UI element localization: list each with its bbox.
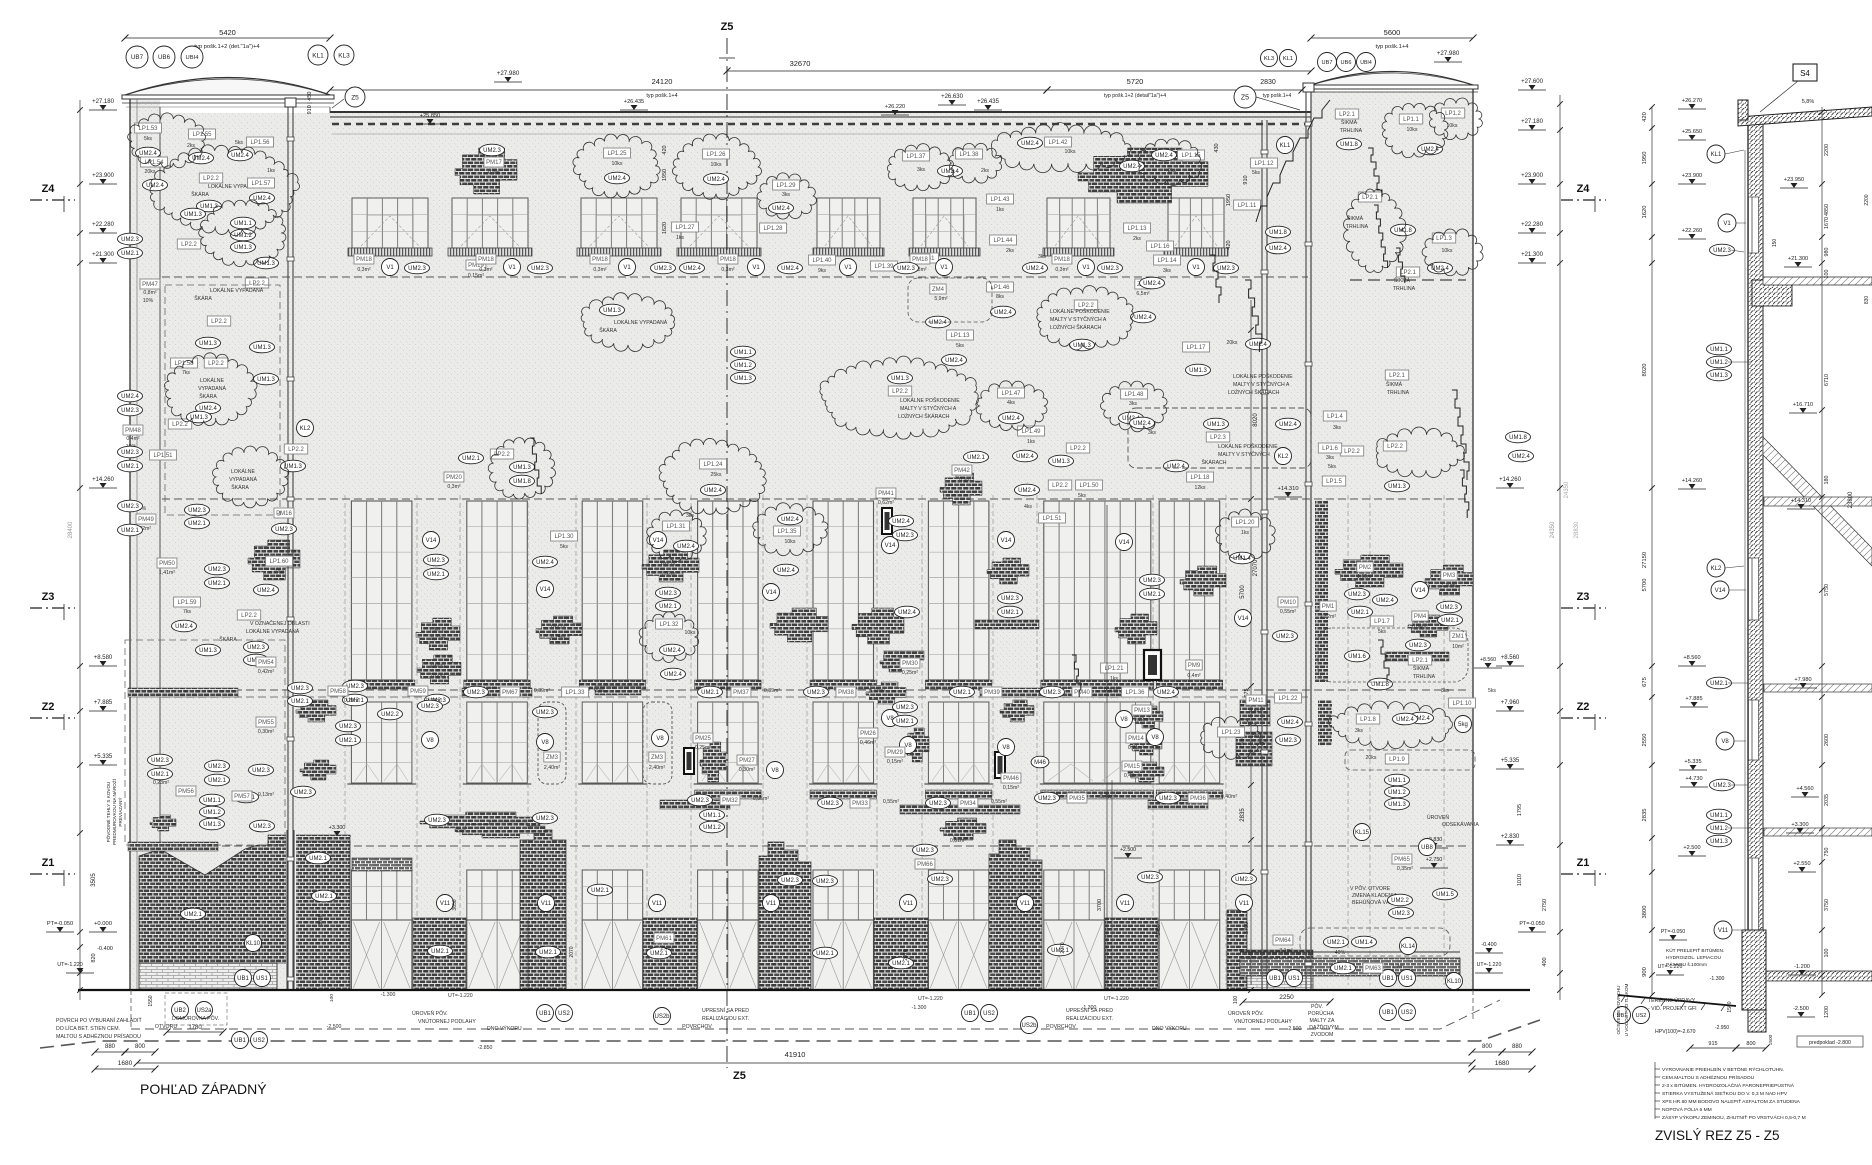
- grid line Z3 left: [30, 607, 75, 609]
- svg-text:POVRCHOV: POVRCHOV: [1046, 1024, 1076, 1030]
- window row4 #2: [467, 870, 528, 990]
- svg-text:US1: US1: [1288, 976, 1300, 982]
- level UT=-1.220: [57, 962, 94, 973]
- label LP1.47: [998, 388, 1025, 398]
- label 5kg: [1455, 716, 1472, 733]
- dim 2250: [1240, 994, 1334, 1006]
- svg-text:PM3: PM3: [1443, 573, 1456, 579]
- label UM2.4: [1130, 417, 1155, 429]
- brick chain sill-0: [462, 688, 532, 697]
- svg-text:UM2.3: UM2.3: [252, 768, 270, 774]
- svg-text:V1: V1: [386, 265, 394, 271]
- svg-text:24120: 24120: [652, 77, 673, 86]
- svg-text:23800: 23800: [1848, 491, 1854, 508]
- brick chain under window: [1240, 700, 1270, 726]
- label LP2.2: [1340, 446, 1363, 456]
- label UM2.4: [704, 173, 729, 185]
- label LP2.2: [1048, 480, 1071, 490]
- label UM2.3: [1040, 686, 1065, 698]
- predpoklad box: [1797, 1036, 1863, 1047]
- label LP1.31: [663, 521, 690, 531]
- label PM58: [328, 686, 348, 696]
- label LP2.2: [1074, 300, 1097, 310]
- svg-text:LP1.18: LP1.18: [1190, 475, 1210, 481]
- svg-text:-0.400: -0.400: [97, 946, 113, 952]
- svg-text:UB1: UB1: [1382, 976, 1394, 982]
- svg-text:0,15m²: 0,15m²: [468, 273, 484, 279]
- label UM1.2: [1707, 822, 1732, 834]
- svg-text:KL1: KL1: [312, 52, 324, 59]
- label UM2.3: [533, 706, 558, 718]
- label UM2.1: [964, 451, 989, 463]
- svg-text:-2.950: -2.950: [1715, 1025, 1729, 1031]
- label UM1.3: [1204, 418, 1229, 430]
- brick chain sill-1: [595, 686, 641, 695]
- label KL1: [1280, 50, 1297, 67]
- svg-text:LP1.47: LP1.47: [1001, 391, 1021, 397]
- svg-text:UM2.4: UM2.4: [1167, 464, 1185, 470]
- svg-text:US1: US1: [1401, 976, 1413, 982]
- label UM1.3: [510, 461, 535, 473]
- svg-text:UM2.3: UM2.3: [536, 816, 554, 822]
- label UM1.1: [200, 794, 225, 806]
- label LP1.24: [700, 459, 727, 469]
- svg-text:5720: 5720: [1127, 77, 1144, 86]
- label LP2.1: [1385, 370, 1408, 380]
- svg-text:UM2.3: UM2.3: [1235, 877, 1253, 883]
- svg-text:100: 100: [1824, 270, 1830, 279]
- svg-text:LP2.3: LP2.3: [1210, 435, 1226, 441]
- svg-text:25ks: 25ks: [711, 472, 722, 478]
- label UM2.4: [1140, 277, 1165, 289]
- label UM2.4: [1018, 137, 1043, 149]
- svg-text:Z5: Z5: [733, 1070, 746, 1082]
- svg-text:UM2.3: UM2.3: [428, 818, 446, 824]
- label LP1.59: [174, 597, 201, 607]
- label V11: [1714, 921, 1732, 939]
- svg-text:3ks: 3ks: [1441, 688, 1449, 694]
- svg-text:ZVISLÝ REZ Z5 - Z5: ZVISLÝ REZ Z5 - Z5: [1655, 1128, 1780, 1143]
- svg-text:PM47: PM47: [142, 282, 158, 288]
- svg-text:TERÉNNE ÚPRAVY: TERÉNNE ÚPRAVY: [1648, 997, 1696, 1004]
- brick pier P2b: [528, 918, 566, 990]
- label PM26: [858, 728, 878, 738]
- svg-text:1680: 1680: [1495, 1060, 1510, 1067]
- cloud LP1.26: [672, 134, 761, 200]
- label V8: [767, 762, 784, 779]
- svg-text:10ks: 10ks: [711, 162, 722, 168]
- svg-text:UB1: UB1: [234, 1038, 246, 1044]
- svg-text:3ks: 3ks: [1163, 268, 1171, 274]
- cloud LP1.38: [949, 143, 1001, 183]
- label UM2.3: [244, 641, 269, 653]
- label LP1.48: [1121, 389, 1148, 399]
- svg-text:UM2.4: UM2.4: [929, 320, 947, 326]
- level +5.335: [1496, 758, 1524, 769]
- svg-text:UM1.1: UM1.1: [1710, 813, 1728, 819]
- label Z5: [345, 87, 365, 107]
- svg-text:+16.710: +16.710: [1793, 402, 1813, 408]
- svg-text:ŠKÁRA: ŠKÁRA: [191, 191, 209, 198]
- svg-text:UM2.4: UM2.4: [1396, 717, 1414, 723]
- svg-text:UM2.3: UM2.3: [291, 686, 309, 692]
- level +22.280: [89, 222, 117, 233]
- svg-text:UM2.4: UM2.4: [1002, 416, 1020, 422]
- svg-text:3030: 3030: [318, 914, 324, 925]
- svg-text:UM2.4: UM2.4: [1376, 598, 1394, 604]
- svg-text:+26.630: +26.630: [941, 94, 964, 100]
- label UB1: [1267, 970, 1284, 987]
- svg-text:UM2.3: UM2.3: [208, 567, 226, 573]
- svg-text:PM27: PM27: [739, 758, 755, 764]
- svg-text:KL14: KL14: [1401, 944, 1416, 950]
- leader Z5b: [332, 99, 344, 108]
- label UM1.2: [200, 806, 225, 818]
- svg-text:LP1.56: LP1.56: [250, 140, 270, 146]
- svg-text:UM2.3: UM2.3: [121, 408, 139, 414]
- svg-text:10m²: 10m²: [1452, 644, 1464, 650]
- level +25.650: [1678, 129, 1706, 140]
- svg-text:5kg: 5kg: [1458, 722, 1468, 728]
- label LP1.38: [956, 149, 983, 159]
- svg-text:3ks: 3ks: [1148, 430, 1156, 436]
- svg-text:UM2.1: UM2.1: [896, 719, 914, 725]
- cloud LP2.2 annex: [1376, 427, 1464, 477]
- svg-text:0,46m²: 0,46m²: [860, 740, 876, 746]
- svg-text:KL15: KL15: [1355, 830, 1370, 836]
- svg-text:800: 800: [135, 1044, 146, 1050]
- svg-text:27070: 27070: [1253, 559, 1259, 576]
- svg-text:V8: V8: [1002, 745, 1010, 751]
- light brick base left: [139, 963, 277, 989]
- label UM2.4: [1393, 713, 1418, 725]
- label UM1.1: [1385, 774, 1410, 786]
- svg-text:1550: 1550: [148, 995, 154, 1006]
- label V8: [537, 734, 554, 751]
- svg-text:KL3: KL3: [1264, 56, 1274, 62]
- brick patch PM15: [1128, 762, 1164, 782]
- label V8: [652, 730, 669, 747]
- label PM2: [1357, 562, 1373, 572]
- svg-text:UM2.3: UM2.3: [1141, 875, 1159, 881]
- label PM3: [1441, 570, 1457, 580]
- label UM2.4: [250, 192, 275, 204]
- svg-text:UM2.4: UM2.4: [146, 183, 164, 189]
- label LP1.37: [903, 151, 930, 161]
- label UM2.1: [647, 947, 672, 959]
- svg-text:LOKÁLNE POŠKODENIE: LOKÁLNE POŠKODENIE: [900, 397, 960, 404]
- label UM2.3: [336, 720, 361, 732]
- level +14.260: [89, 477, 117, 488]
- label UM1.1: [1707, 809, 1732, 821]
- label PM18: [718, 254, 738, 264]
- label LP2.2: [1383, 441, 1406, 451]
- svg-text:5ks: 5ks: [1488, 688, 1496, 694]
- label UM2.3: [1035, 792, 1060, 804]
- label UM2.4: [778, 513, 803, 525]
- label V8: [998, 739, 1015, 756]
- svg-text:UM2.1: UM2.1: [967, 455, 985, 461]
- label UM1.3: [250, 341, 275, 353]
- svg-text:VYROVNANIE PRIEHLBÍN V BETÓNE: VYROVNANIE PRIEHLBÍN V BETÓNE RÝCHLOTUHN…: [1662, 1066, 1784, 1073]
- label V14: [423, 532, 440, 549]
- label UM2.3: [651, 262, 676, 274]
- svg-text:UM2.3: UM2.3: [807, 690, 825, 696]
- label V14: [1711, 581, 1729, 599]
- svg-text:UM1.8: UM1.8: [1371, 682, 1389, 688]
- label LP1.36: [1122, 687, 1149, 697]
- cloud LP2.2 mid: [820, 356, 978, 439]
- svg-text:UB2: UB2: [174, 1008, 186, 1014]
- svg-text:2835: 2835: [1642, 809, 1648, 822]
- label V14: [1116, 534, 1133, 551]
- svg-text:LP1.13: LP1.13: [950, 333, 970, 339]
- label UM2.4: [1509, 450, 1534, 462]
- svg-text:MALTY ZA: MALTY ZA: [1310, 1018, 1335, 1024]
- level +26.220: [881, 104, 909, 115]
- label UM1.3: [600, 304, 625, 316]
- svg-text:UM1.3: UM1.3: [253, 345, 271, 351]
- svg-text:UM2.3: UM2.3: [1159, 796, 1177, 802]
- label UM2.4: [136, 147, 161, 159]
- svg-text:+2.500: +2.500: [1120, 847, 1136, 853]
- svg-text:UM1.2: UM1.2: [203, 810, 221, 816]
- label UM2.3: [1156, 792, 1181, 804]
- svg-text:NOPOVÁ FÓLIA 6 MM: NOPOVÁ FÓLIA 6 MM: [1662, 1106, 1712, 1113]
- level +21.300: [89, 252, 117, 263]
- cloud LP1.47: [976, 381, 1047, 431]
- svg-text:0,60m: 0,60m: [431, 673, 445, 679]
- brick chain sill-L1: [128, 688, 238, 697]
- label UM1.3: [1385, 798, 1410, 810]
- svg-text:27150: 27150: [1642, 552, 1648, 568]
- label UM2.1: [234, 791, 259, 803]
- svg-text:+23.900: +23.900: [92, 173, 115, 179]
- svg-text:2200: 2200: [1864, 194, 1870, 205]
- label LP2.3: [1206, 432, 1229, 442]
- svg-text:4850: 4850: [1824, 204, 1830, 216]
- svg-text:24350: 24350: [1564, 481, 1570, 498]
- svg-text:LP2.2: LP2.2: [203, 176, 219, 182]
- grid line Z1 left: [30, 873, 75, 875]
- svg-text:LOKÁLNE POŠKODENIE: LOKÁLNE POŠKODENIE: [1218, 443, 1278, 450]
- label V8: [882, 710, 899, 727]
- svg-text:UM1.5: UM1.5: [1436, 892, 1454, 898]
- svg-text:UM2.3: UM2.3: [531, 266, 549, 272]
- window row1 #5: [813, 198, 884, 256]
- svg-text:3750: 3750: [1824, 899, 1830, 911]
- svg-text:PM18: PM18: [1054, 257, 1070, 263]
- svg-text:0,3m²: 0,3m²: [721, 267, 735, 273]
- svg-text:PM34: PM34: [960, 801, 976, 807]
- level -2.500: [1787, 1006, 1815, 1017]
- dashed level line +7.980: [162, 696, 1308, 698]
- cloud LP1.20: [1216, 509, 1276, 559]
- label ZM3: [649, 752, 665, 762]
- svg-text:41910: 41910: [785, 1050, 806, 1059]
- svg-text:2830: 2830: [1260, 79, 1276, 86]
- svg-text:UM2.1: UM2.1: [121, 528, 139, 534]
- svg-text:800: 800: [1482, 1044, 1493, 1050]
- svg-text:0,23m²: 0,23m²: [153, 780, 169, 786]
- svg-text:0,64m²: 0,64m²: [1412, 624, 1428, 630]
- label UM2.3: [1138, 871, 1163, 883]
- label UM2.1: [1048, 944, 1073, 956]
- svg-text:predpoklad -2.800: predpoklad -2.800: [1809, 1040, 1851, 1046]
- black box PM41: [882, 508, 892, 534]
- svg-text:UM1.3: UM1.3: [257, 377, 275, 383]
- svg-text:-1.300: -1.300: [1710, 976, 1725, 982]
- svg-text:3ks: 3ks: [1333, 425, 1341, 431]
- svg-text:V OZNAČENEJ OBLASTI: V OZNAČENEJ OBLASTI: [250, 620, 310, 627]
- label UM2.3: [1214, 262, 1239, 274]
- svg-text:0,55m²: 0,55m²: [883, 799, 899, 805]
- label UM2.1: [1331, 962, 1356, 974]
- svg-text:V14: V14: [1415, 588, 1426, 594]
- svg-text:+26.220: +26.220: [885, 104, 905, 110]
- svg-text:+21.300: +21.300: [92, 252, 115, 258]
- label V11: [900, 895, 917, 912]
- svg-text:UM2.1: UM2.1: [427, 572, 445, 578]
- svg-text:UM1.3: UM1.3: [513, 465, 531, 471]
- svg-text:KL1: KL1: [1711, 152, 1722, 158]
- label UM1.3: [1707, 835, 1732, 847]
- svg-text:0,3m²: 0,3m²: [357, 267, 371, 273]
- svg-text:LP1.21: LP1.21: [1104, 666, 1124, 672]
- svg-text:V11: V11: [1718, 928, 1729, 934]
- svg-text:UM1.3: UM1.3: [199, 341, 217, 347]
- label UB8: [1419, 839, 1436, 856]
- svg-text:10ks: 10ks: [1407, 127, 1418, 133]
- level +2.500: [1114, 847, 1142, 858]
- svg-text:LP1.25: LP1.25: [607, 151, 627, 157]
- label UM2.4: [1119, 412, 1144, 424]
- label UM2.3: [118, 404, 143, 416]
- dashed level line +8.580: [162, 689, 1470, 691]
- svg-text:POVRCH PO VYBURANÍ ZAHLADIŤ: POVRCH PO VYBURANÍ ZAHLADIŤ: [56, 1016, 142, 1024]
- steel column PM8 black box: [1144, 650, 1161, 680]
- svg-text:HYDROIZOL. LEPIACOU: HYDROIZOL. LEPIACOU: [1666, 955, 1721, 961]
- label UM2.1: [536, 946, 561, 958]
- svg-text:UM2.1: UM2.1: [309, 856, 327, 862]
- label LP1.13: [947, 330, 974, 340]
- svg-text:PM40: PM40: [1074, 690, 1090, 696]
- label LP2.2: [1066, 443, 1089, 453]
- svg-text:0,32m²: 0,32m²: [1134, 717, 1150, 723]
- internal dim line 3700: [1106, 505, 1108, 988]
- svg-text:UM2.1: UM2.1: [953, 690, 971, 696]
- svg-text:+0.000: +0.000: [94, 921, 112, 927]
- label PM33: [850, 798, 870, 808]
- svg-text:U VODOU POD TLAKOM: U VODOU POD TLAKOM: [1624, 983, 1629, 1036]
- label PM65: [1392, 854, 1412, 864]
- label UM1.3: [196, 644, 221, 656]
- svg-text:PM39: PM39: [984, 690, 1000, 696]
- label PM35: [1067, 793, 1087, 803]
- label US2: [251, 1032, 268, 1049]
- svg-text:+8.560: +8.560: [1480, 657, 1496, 663]
- section notes: [1655, 1068, 1660, 1070]
- label UM2.3: [118, 446, 143, 458]
- brick chain row4-a: [128, 842, 218, 851]
- brick patch PM22: [866, 682, 906, 704]
- svg-text:UM2.3: UM2.3: [1348, 592, 1366, 598]
- svg-text:ŠKÁRA: ŠKÁRA: [199, 393, 217, 400]
- svg-text:PM37: PM37: [733, 690, 749, 696]
- annex corner brick strip: [1315, 500, 1328, 682]
- window row2 #6: [925, 501, 992, 689]
- svg-text:28400: 28400: [68, 521, 74, 538]
- svg-text:1620: 1620: [662, 222, 668, 234]
- svg-text:40%: 40%: [1335, 950, 1346, 956]
- label PM4: [1412, 611, 1428, 621]
- svg-text:VYPADANÁ: VYPADANÁ: [198, 385, 226, 392]
- svg-text:2ks: 2ks: [981, 168, 989, 174]
- svg-text:UM2.4: UM2.4: [777, 568, 795, 574]
- svg-text:UB1: UB1: [964, 1011, 976, 1017]
- label US1: [254, 970, 271, 987]
- dim: [327, 87, 1051, 94]
- svg-text:UT=-1.220: UT=-1.220: [1104, 996, 1129, 1002]
- svg-text:UM2.3: UM2.3: [467, 690, 485, 696]
- svg-text:PREVIAZANÝ: PREVIAZANÝ: [117, 797, 123, 826]
- label LP2.2: [888, 386, 911, 396]
- dashed 21300 annex: [1350, 279, 1466, 281]
- svg-text:0,30m²: 0,30m²: [739, 767, 755, 773]
- label PM42: [952, 465, 972, 475]
- svg-text:UM1.8: UM1.8: [1340, 142, 1358, 148]
- label UM2.3: [418, 700, 443, 712]
- svg-text:0,25m²: 0,25m²: [695, 745, 711, 751]
- window row1 #4: [677, 198, 761, 256]
- svg-text:0,3m²: 0,3m²: [447, 484, 461, 490]
- svg-text:V8: V8: [1120, 717, 1128, 723]
- level +27.980: [1434, 50, 1462, 62]
- svg-text:LP2.2: LP2.2: [181, 242, 197, 248]
- cloud LP1.31: [647, 510, 707, 562]
- svg-text:PM66: PM66: [917, 862, 933, 868]
- svg-text:UM2.2: UM2.2: [1391, 898, 1409, 904]
- label UM2.4: [778, 262, 803, 274]
- brick patch PM56b: [150, 815, 176, 831]
- svg-text:KL3: KL3: [338, 52, 350, 59]
- svg-text:3650: 3650: [452, 899, 458, 910]
- svg-text:V11: V11: [652, 901, 663, 907]
- label PM13: [1132, 705, 1152, 715]
- svg-text:UM2.3: UM2.3: [659, 591, 677, 597]
- dim: [1044, 87, 1244, 94]
- cloud LP1.25: [573, 134, 660, 198]
- svg-text:MALTY V STYČNÝCH: MALTY V STYČNÝCH: [1218, 451, 1270, 458]
- svg-text:PM36: PM36: [1190, 796, 1206, 802]
- label V1: [748, 259, 765, 276]
- brick chain sill-3: [980, 688, 1130, 697]
- label UM1.5: [1433, 888, 1458, 900]
- svg-text:LP1.48: LP1.48: [1124, 392, 1144, 398]
- label UM1.2: [1707, 356, 1732, 368]
- svg-text:0,55m²: 0,55m²: [1280, 609, 1296, 615]
- svg-text:675: 675: [1642, 677, 1648, 687]
- level +14.260: [1678, 478, 1706, 489]
- label UM2.3: [1710, 244, 1735, 256]
- svg-text:PM35: PM35: [1069, 796, 1085, 802]
- svg-text:UM2.3: UM2.3: [483, 148, 501, 154]
- svg-text:PM65: PM65: [1394, 857, 1410, 863]
- label V1: [840, 259, 857, 276]
- dim 800: [122, 1044, 159, 1056]
- svg-text:LP2.1: LP2.1: [1339, 112, 1355, 118]
- window row2 #3: [579, 501, 646, 689]
